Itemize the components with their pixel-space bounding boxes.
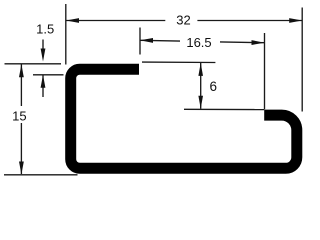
svg-text:32: 32 — [176, 13, 190, 28]
svg-text:15: 15 — [12, 109, 26, 124]
svg-text:16.5: 16.5 — [186, 35, 211, 50]
svg-text:6: 6 — [210, 79, 218, 94]
svg-text:1.5: 1.5 — [36, 21, 54, 36]
